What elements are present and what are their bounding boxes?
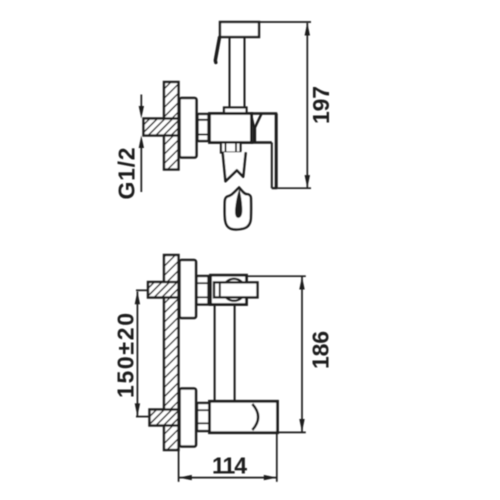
svg-text:197: 197 [308, 86, 334, 124]
svg-text:G1/2: G1/2 [114, 148, 140, 200]
svg-text:114: 114 [212, 453, 247, 479]
svg-text:186: 186 [308, 331, 334, 369]
svg-text:150±20: 150±20 [113, 313, 139, 398]
